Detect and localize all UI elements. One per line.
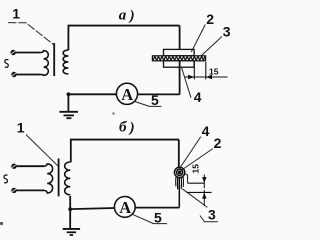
brush electrode strands (part 3) [176, 177, 184, 189]
ammeter A (a) [116, 83, 137, 104]
coil electrode tip (parts 2,4) [174, 167, 184, 177]
wire bottom left segment [68, 93, 117, 95]
dimension 15 (b): arrow up [202, 192, 206, 198]
wire below clamp (part 4) [179, 61, 181, 95]
dimension 15 (b): extension line lower [187, 191, 212, 193]
paper speckles [0, 222, 3, 225]
wire terminal top to primary [16, 52, 41, 54]
transformer secondary winding (a) [63, 50, 68, 74]
wire secondary top riser [67, 26, 69, 51]
hatched bar electrode (part 3) [152, 56, 205, 61]
leader label 2 to electrode (b) [181, 149, 213, 171]
svg-text:): ) [128, 8, 135, 24]
wire top horizontal [68, 25, 180, 27]
wire terminal bottom to primary [17, 74, 41, 76]
wire bottom right segment (b) [135, 207, 179, 209]
dimension 15 (b): dimension line [203, 175, 205, 207]
svg-text:3: 3 [223, 23, 231, 39]
transformer core (b) [58, 158, 60, 196]
ground symbol (a) [59, 112, 78, 118]
AC input terminal top [11, 50, 16, 55]
transformer secondary winding (b) [65, 162, 71, 195]
clamp lower block [164, 61, 195, 67]
dimension 15 (a): extension line right [205, 62, 207, 80]
svg-text:2: 2 [214, 135, 222, 151]
leader from label 1 to core [8, 23, 53, 45]
transformer primary winding (a) [41, 51, 49, 76]
svg-text:A: A [119, 198, 131, 217]
svg-text:5: 5 [151, 92, 159, 108]
wire right side down to electrode (b) [178, 140, 180, 168]
ground symbol (b) [63, 229, 80, 235]
clamp upper block (part 2) [164, 49, 195, 55]
wire right side down to clamp [179, 26, 181, 50]
wire bottom right segment [137, 93, 180, 95]
ground wire (a) [67, 94, 69, 112]
dimension 15 (b): step extension from electrode [185, 174, 187, 183]
svg-text:б: б [119, 120, 127, 136]
svg-text:A: A [121, 85, 133, 104]
leader label 4 to electrode (b) [179, 137, 201, 170]
dimension 15 (b): extension line upper [188, 182, 205, 184]
ammeter A (b) [114, 197, 135, 218]
label 3 underline hook (b) [200, 216, 218, 222]
transformer primary winding (b) [44, 164, 53, 193]
svg-text:а: а [119, 7, 127, 23]
AC input terminal bottom [11, 72, 16, 77]
label 5 leader (a) [135, 102, 162, 107]
leader from label 1 to core (b) [26, 135, 58, 167]
svg-text:15: 15 [209, 67, 219, 77]
svg-text:4: 4 [202, 123, 210, 139]
wire top horizontal (b) [70, 139, 179, 141]
junction node (b) [68, 207, 72, 211]
leader label 3 to brush (b) [182, 189, 207, 208]
ground wire (b) [69, 196, 71, 229]
leader label 3 to bar (a) [201, 37, 222, 56]
junction node (a) [67, 92, 71, 96]
svg-text:2: 2 [206, 11, 214, 27]
wire terminal top to primary (b) [17, 165, 44, 167]
dimension 15 (a): dimension line [184, 76, 227, 78]
AC input terminal bottom (b) [11, 188, 16, 193]
dimension 15 (b): arrow down [202, 177, 206, 183]
AC source tilde (b) [4, 175, 8, 183]
leader label 2 to clamp (a) [191, 25, 205, 53]
svg-text:3: 3 [208, 207, 216, 223]
svg-text:4: 4 [194, 89, 202, 105]
svg-text:): ) [128, 120, 135, 136]
svg-text:1: 1 [17, 120, 25, 136]
label 5 leader (b) [132, 214, 167, 223]
wire electrode down to bottom (b) [178, 177, 180, 207]
svg-text:5: 5 [154, 210, 162, 226]
svg-text:15: 15 [190, 164, 200, 174]
wire terminal bottom to primary (b) [17, 189, 44, 191]
AC input terminal top (b) [11, 164, 16, 169]
AC source tilde [5, 60, 9, 68]
dimension 15 (a): arrow right [206, 75, 212, 79]
transformer core (a) [53, 43, 55, 76]
wire bottom left segment (b) [70, 208, 114, 209]
dimension 15 (a): extension line left [193, 62, 195, 80]
leader label 4 to wire (a) [182, 68, 191, 98]
dimension 15 (a): arrow left [188, 75, 194, 79]
wire secondary top riser (b) [70, 140, 72, 163]
svg-text:1: 1 [12, 6, 20, 22]
